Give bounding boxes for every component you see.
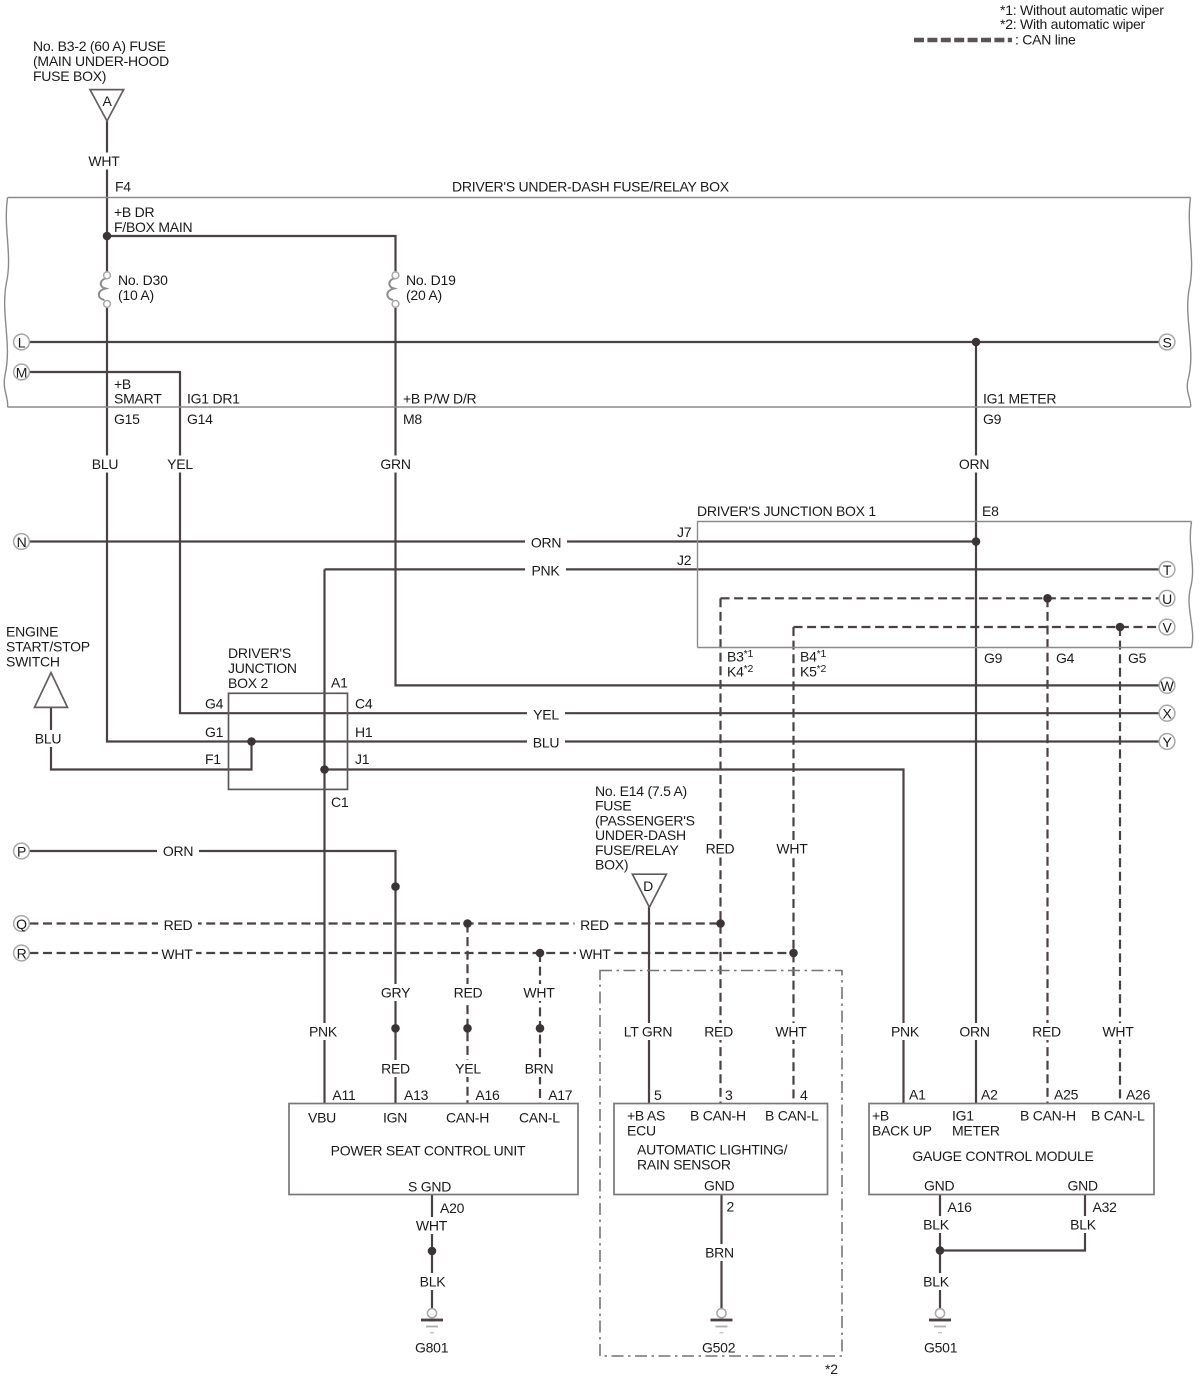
wire: U row (CAN dashed) from B3/K4 column to connector U xyxy=(721,597,1160,599)
svg-text:BACK UP: BACK UP xyxy=(872,1123,932,1139)
svg-text:WHT: WHT xyxy=(161,946,193,962)
svg-text:FUSE: FUSE xyxy=(595,798,631,814)
wire colour label: RED xyxy=(376,1060,416,1077)
svg-text:G15: G15 xyxy=(114,411,140,427)
svg-text:J1: J1 xyxy=(355,751,370,767)
svg-text:H1: H1 xyxy=(355,724,373,740)
connector U xyxy=(1159,590,1175,606)
svg-text:WHT: WHT xyxy=(523,985,555,1001)
svg-text:FUSE/RELAY: FUSE/RELAY xyxy=(595,842,680,858)
wire colour label: YEL xyxy=(161,456,199,473)
svg-text:L: L xyxy=(18,335,26,351)
svg-text:S GND: S GND xyxy=(408,1179,451,1195)
junction: splice RED/YEL on CAN-H drop xyxy=(463,1024,472,1033)
svg-text:No. D19: No. D19 xyxy=(406,272,456,288)
wire colour label: BLU xyxy=(86,456,124,473)
wire: PNK vertical from J2 row through junction box 2 down to power seat A11 xyxy=(323,569,325,1103)
svg-text:YEL: YEL xyxy=(455,1061,481,1077)
svg-text:SWITCH: SWITCH xyxy=(6,654,60,670)
wire: CAN-L dashed vertical down to power seat A17 xyxy=(539,953,541,1104)
svg-text:T: T xyxy=(1163,562,1172,578)
svg-text:WHT: WHT xyxy=(579,946,611,962)
connector A triangle (from main under-hood fuse box) xyxy=(90,90,124,121)
wire: B3/K4 dashed vertical down to rain sensor pin 3 xyxy=(719,598,721,1103)
connector L xyxy=(14,334,30,350)
svg-text:AUTOMATIC LIGHTING/: AUTOMATIC LIGHTING/ xyxy=(637,1142,788,1158)
svg-text:RED: RED xyxy=(704,1024,733,1040)
svg-text:SMART: SMART xyxy=(114,391,162,407)
svg-text:ORN: ORN xyxy=(959,456,989,472)
svg-text:RAIN SENSOR: RAIN SENSOR xyxy=(637,1157,731,1173)
svg-text:: CAN line: : CAN line xyxy=(1015,32,1076,48)
svg-text:GAUGE CONTROL MODULE: GAUGE CONTROL MODULE xyxy=(912,1148,1093,1164)
wire colour label: RED xyxy=(699,1023,739,1040)
svg-text:GRN: GRN xyxy=(380,456,410,472)
svg-text:PNK: PNK xyxy=(531,563,560,579)
connector Q xyxy=(14,916,30,932)
junction: Q row / CAN-H drop xyxy=(463,919,472,928)
svg-text:WHT: WHT xyxy=(775,1024,807,1040)
svg-text:IG1: IG1 xyxy=(952,1108,974,1124)
svg-text:YEL: YEL xyxy=(167,456,193,472)
wire: G5 dashed vertical down to gauge A26 xyxy=(1119,627,1121,1104)
wire: gauge GND A16 down to ground G501 xyxy=(939,1195,941,1309)
svg-text:No. D30: No. D30 xyxy=(118,272,168,288)
engine start/stop switch triangle xyxy=(35,673,68,708)
wire colour label: GRY xyxy=(375,984,416,1001)
svg-text:A1: A1 xyxy=(331,675,348,691)
svg-text:CAN-L: CAN-L xyxy=(519,1110,560,1126)
junction: splice on IGN feed xyxy=(391,882,400,891)
wire: fuse E14 connector D lead down to rain sensor pin 5 xyxy=(648,907,650,1104)
junction: Q row / B3 column xyxy=(716,919,725,928)
svg-text:*2: *2 xyxy=(825,1361,838,1377)
svg-text:(20 A): (20 A) xyxy=(406,287,442,303)
ground G501 xyxy=(929,1309,951,1333)
junction: J1 row / PNK vertical xyxy=(320,765,329,774)
ground G502 xyxy=(711,1309,733,1333)
svg-text:IG1 METER: IG1 METER xyxy=(983,391,1056,407)
svg-text:GRY: GRY xyxy=(381,985,411,1001)
svg-text:BRN: BRN xyxy=(525,1061,554,1077)
svg-text:START/STOP: START/STOP xyxy=(6,639,90,655)
wire: G4 dashed vertical down to gauge A25 xyxy=(1046,598,1048,1103)
svg-text:LT GRN: LT GRN xyxy=(624,1024,673,1040)
svg-text:RED: RED xyxy=(164,917,193,933)
svg-text:S: S xyxy=(1162,335,1171,351)
svg-text:BOX 2: BOX 2 xyxy=(228,675,268,691)
svg-text:WHT: WHT xyxy=(1102,1024,1134,1040)
svg-text:F1: F1 xyxy=(205,751,221,767)
connector D triangle (fuse E14) xyxy=(632,874,666,907)
svg-text:A1: A1 xyxy=(909,1087,926,1103)
wire: CAN-H dashed vertical down to power seat A16 xyxy=(466,924,468,1104)
junction: splice WHT/BRN on CAN-L drop xyxy=(536,1024,545,1033)
connector R xyxy=(14,945,30,961)
svg-text:BLK: BLK xyxy=(1070,1217,1097,1233)
wire: gauge GND A32 down and across to G501 wire xyxy=(940,1195,1085,1251)
wire colour label: BLK xyxy=(1063,1216,1103,1233)
svg-text:M: M xyxy=(16,365,27,381)
svg-text:GND: GND xyxy=(1068,1178,1099,1194)
svg-text:PNK: PNK xyxy=(891,1024,920,1040)
connector W xyxy=(1159,678,1175,694)
svg-text:G4: G4 xyxy=(205,696,224,712)
svg-text:W: W xyxy=(1161,678,1175,694)
wire colour label: ORN xyxy=(525,534,567,551)
junction: N row / E8 xyxy=(972,537,981,546)
svg-text:C1: C1 xyxy=(331,794,349,810)
svg-text:(PASSENGER'S: (PASSENGER'S xyxy=(595,812,695,828)
wire: Q row (CAN dashed RED) to B3/K4 column xyxy=(29,922,720,924)
svg-text:4: 4 xyxy=(800,1087,808,1103)
junction: U row / G4 column xyxy=(1043,594,1052,603)
connector Y xyxy=(1159,734,1175,750)
wire: P row (ORN) corner down to power seat A13 xyxy=(29,851,395,1104)
svg-text:G501: G501 xyxy=(924,1340,958,1356)
wire colour label: PNK xyxy=(525,562,566,579)
svg-text:J2: J2 xyxy=(677,552,692,568)
wire colour label: WHT xyxy=(520,984,558,1001)
svg-text:U: U xyxy=(1162,591,1172,607)
wire: L row to connector S xyxy=(29,341,1159,343)
wire colour label: PNK xyxy=(885,1023,926,1040)
svg-text:2: 2 xyxy=(727,1199,735,1215)
svg-text:A16: A16 xyxy=(948,1199,973,1215)
svg-text:B CAN-L: B CAN-L xyxy=(1091,1108,1145,1124)
svg-text:A25: A25 xyxy=(1054,1087,1079,1103)
connector X xyxy=(1159,705,1175,721)
svg-text:G1: G1 xyxy=(205,724,224,740)
svg-text:DRIVER'S: DRIVER'S xyxy=(228,645,291,661)
svg-text:D: D xyxy=(643,878,653,894)
junction: gauge grounds tie point xyxy=(936,1246,945,1255)
connector M xyxy=(14,364,30,380)
svg-text:Q: Q xyxy=(16,916,27,932)
connector P xyxy=(14,843,30,859)
svg-text:3: 3 xyxy=(725,1087,733,1103)
svg-text:RED: RED xyxy=(706,841,735,857)
svg-text:A: A xyxy=(102,93,112,109)
ground G801 xyxy=(421,1309,443,1333)
svg-text:G9: G9 xyxy=(983,411,1002,427)
svg-text:+B P/W D/R: +B P/W D/R xyxy=(403,391,476,407)
wire colour label: ORN xyxy=(157,843,199,860)
wire colour label: BRN xyxy=(700,1244,740,1261)
wire colour label: WHT xyxy=(1099,1023,1137,1040)
svg-text:No. E14 (7.5 A): No. E14 (7.5 A) xyxy=(595,783,687,799)
wire: connector A lead (WHT) down into fuse box xyxy=(106,121,108,273)
svg-text:Y: Y xyxy=(1162,734,1172,750)
svg-text:GND: GND xyxy=(924,1178,955,1194)
svg-text:B CAN-H: B CAN-H xyxy=(690,1108,746,1124)
wire: B4/K5 dashed vertical down to rain sensor pin 4 xyxy=(792,627,794,1104)
wire: engine start/stop switch lead down, F1 row, up to G1 row junction xyxy=(51,707,252,769)
wire colour label: WHT xyxy=(85,153,123,170)
svg-text:(MAIN UNDER-HOOD: (MAIN UNDER-HOOD xyxy=(33,53,169,69)
wire: J2 row (PNK) to connector T xyxy=(325,568,1160,570)
svg-text:B CAN-L: B CAN-L xyxy=(765,1108,819,1124)
wire colour label: BLK xyxy=(916,1216,956,1233)
svg-text:ORN: ORN xyxy=(163,843,193,859)
svg-text:F/BOX MAIN: F/BOX MAIN xyxy=(114,219,192,235)
svg-text:G9: G9 xyxy=(984,650,1003,666)
wire colour label: PNK xyxy=(303,1023,344,1040)
junction: +B DR node xyxy=(103,232,112,241)
svg-text:WHT: WHT xyxy=(88,153,120,169)
svg-text:A16: A16 xyxy=(475,1087,500,1103)
wire: fuse D19 output down, corner, W row to connector W xyxy=(396,308,1160,686)
wire colour label: RED xyxy=(1027,1023,1067,1040)
svg-text:BLK: BLK xyxy=(923,1274,950,1290)
wire: V row (CAN dashed) from B4/K5 column to connector V xyxy=(794,626,1160,628)
box: power seat control unit xyxy=(289,1104,578,1195)
wire: N row (ORN) to junction in box 1 xyxy=(29,540,976,542)
wire colour label: YEL xyxy=(449,1060,487,1077)
wire colour label: LT GRN xyxy=(620,1023,676,1040)
junction: splice on power seat ground lead xyxy=(428,1247,437,1256)
svg-text:PNK: PNK xyxy=(309,1024,338,1040)
wire: +B DR node across to fuse D19 xyxy=(107,236,396,272)
svg-text:RED: RED xyxy=(580,917,609,933)
svg-text:M8: M8 xyxy=(403,411,422,427)
svg-text:UNDER-DASH: UNDER-DASH xyxy=(595,827,686,843)
svg-text:WHT: WHT xyxy=(776,841,808,857)
wire colour label: RED xyxy=(575,916,615,933)
svg-text:E8: E8 xyxy=(982,503,999,519)
junction: V row / G5 column xyxy=(1116,623,1125,632)
wire colour label: YEL xyxy=(527,706,565,723)
box: with-automatic-wiper option enclosure (*2, chain line) xyxy=(600,971,842,1357)
wire colour label: BLK xyxy=(413,1273,453,1290)
svg-text:RED: RED xyxy=(454,985,483,1001)
svg-text:A13: A13 xyxy=(404,1087,429,1103)
svg-text:WHT: WHT xyxy=(416,1218,448,1234)
wire colour label: BRN xyxy=(519,1060,559,1077)
svg-text:YEL: YEL xyxy=(533,707,559,723)
svg-text:ENGINE: ENGINE xyxy=(6,624,58,640)
svg-text:BRN: BRN xyxy=(705,1245,734,1261)
wire: R row (CAN dashed WHT) to B4/K5 column xyxy=(29,952,793,954)
junction: splice GRY/RED on IGN feed xyxy=(391,1024,400,1033)
junction: G1 row / F1 riser xyxy=(247,737,256,746)
wire colour label: RED xyxy=(448,984,488,1001)
svg-text:IGN: IGN xyxy=(383,1110,407,1126)
svg-text:METER: METER xyxy=(952,1123,1000,1139)
svg-text:F4: F4 xyxy=(115,179,131,195)
wire colour label: BLK xyxy=(916,1273,956,1290)
wire colour label: BLU xyxy=(527,734,565,751)
svg-text:BLK: BLK xyxy=(420,1274,447,1290)
wire colour label: WHT xyxy=(158,946,196,963)
svg-text:+B DR: +B DR xyxy=(114,204,155,220)
wire colour label: ORN xyxy=(954,1023,996,1040)
svg-text:C4: C4 xyxy=(355,696,373,712)
svg-text:R: R xyxy=(17,946,27,962)
svg-text:A17: A17 xyxy=(548,1087,573,1103)
box: driver's junction box 2 xyxy=(229,693,348,789)
svg-text:(10 A): (10 A) xyxy=(118,287,154,303)
svg-text:CAN-H: CAN-H xyxy=(446,1110,489,1126)
svg-text:B CAN-H: B CAN-H xyxy=(1020,1108,1076,1124)
svg-text:RED: RED xyxy=(1032,1024,1061,1040)
svg-text:FUSE BOX): FUSE BOX) xyxy=(33,68,106,84)
wire colour label: BLU xyxy=(29,730,67,747)
wire: J1 row from PNK vertical to gauge A1 (PNK) xyxy=(325,770,904,1104)
svg-text:ECU: ECU xyxy=(627,1123,656,1139)
wire colour label: GRN xyxy=(375,456,416,473)
box: automatic lighting / rain sensor xyxy=(614,1104,828,1195)
connector V xyxy=(1159,619,1175,635)
svg-text:POWER SEAT CONTROL UNIT: POWER SEAT CONTROL UNIT xyxy=(331,1143,526,1159)
connector T xyxy=(1159,562,1175,578)
wire colour label: RED xyxy=(158,916,198,933)
svg-text:BLU: BLU xyxy=(92,456,119,472)
svg-text:X: X xyxy=(1162,706,1172,722)
svg-text:*2: With automatic wiper: *2: With automatic wiper xyxy=(1000,16,1146,32)
wire colour label: WHT xyxy=(773,841,811,858)
svg-text:RED: RED xyxy=(381,1061,410,1077)
wire colour label: ORN xyxy=(953,456,995,473)
svg-text:No. B3-2 (60 A) FUSE: No. B3-2 (60 A) FUSE xyxy=(33,38,166,54)
svg-text:P: P xyxy=(17,844,26,860)
junction: R row / CAN-L drop xyxy=(536,949,545,958)
svg-text:N: N xyxy=(17,534,27,550)
svg-text:A2: A2 xyxy=(981,1087,998,1103)
svg-text:G801: G801 xyxy=(415,1340,449,1356)
svg-text:BLU: BLU xyxy=(533,735,560,751)
svg-text:5: 5 xyxy=(654,1087,662,1103)
wire: fuse D30 output down, corner at G1 row, BLU row to connector Y xyxy=(107,308,1159,742)
junction: L row / IG1 METER xyxy=(972,338,981,347)
svg-text:JUNCTION: JUNCTION xyxy=(228,660,297,676)
box: driver's under-dash fuse/relay box (torn left/right edges) xyxy=(8,197,1191,199)
connector S xyxy=(1159,334,1175,350)
svg-text:G502: G502 xyxy=(702,1340,736,1356)
svg-text:+B AS: +B AS xyxy=(627,1108,665,1124)
svg-text:GND: GND xyxy=(704,1178,735,1194)
svg-text:IG1 DR1: IG1 DR1 xyxy=(187,391,240,407)
box: driver's junction box 1 (torn right edge) xyxy=(698,522,1192,648)
svg-text:DRIVER'S UNDER-DASH FUSE/RELAY: DRIVER'S UNDER-DASH FUSE/RELAY BOX xyxy=(452,179,730,195)
svg-text:BLK: BLK xyxy=(923,1217,950,1233)
wire colour label: WHT xyxy=(576,946,614,963)
wire: M row, corner at x=180, X row (YEL) to connector X xyxy=(29,372,1159,713)
svg-text:A32: A32 xyxy=(1093,1199,1118,1215)
svg-text:A20: A20 xyxy=(440,1200,465,1216)
wire colour label: WHT xyxy=(413,1217,451,1234)
wire: power seat S GND A20 down to ground G801 xyxy=(431,1195,433,1309)
wire colour label: WHT xyxy=(772,1023,810,1040)
connector N xyxy=(14,534,30,550)
svg-text:BOX): BOX) xyxy=(595,857,628,873)
svg-text:A11: A11 xyxy=(332,1087,356,1103)
svg-text:J7: J7 xyxy=(677,524,692,540)
svg-text:+B: +B xyxy=(872,1108,889,1124)
wire: rain sensor GND pin 2 down to ground G502 xyxy=(720,1195,722,1309)
svg-text:G14: G14 xyxy=(187,411,213,427)
wire colour label: RED xyxy=(700,841,740,858)
svg-text:ORN: ORN xyxy=(531,535,561,551)
svg-text:ORN: ORN xyxy=(959,1024,989,1040)
svg-text:VBU: VBU xyxy=(308,1110,336,1126)
wire: IG1 METER vertical (ORN) from L row down to gauge A2 xyxy=(975,342,977,1104)
junction: R row / B4 column xyxy=(789,949,798,958)
svg-text:A26: A26 xyxy=(1126,1087,1151,1103)
box: gauge control module xyxy=(869,1104,1154,1195)
svg-text:G4: G4 xyxy=(1056,650,1075,666)
svg-text:G5: G5 xyxy=(1128,650,1147,666)
legend CAN line dash sample xyxy=(914,38,1012,43)
fuse No. D19 xyxy=(387,278,395,300)
svg-text:V: V xyxy=(1162,620,1172,636)
svg-text:DRIVER'S JUNCTION BOX 1: DRIVER'S JUNCTION BOX 1 xyxy=(697,503,876,519)
fuse No. D30 xyxy=(99,278,107,300)
svg-text:BLU: BLU xyxy=(35,731,62,747)
